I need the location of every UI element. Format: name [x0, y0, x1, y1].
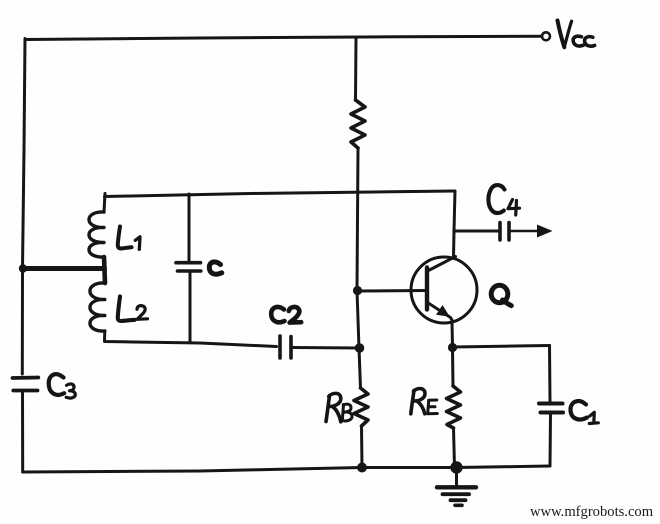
- wire base lead: [358, 289, 428, 293]
- label C2: [271, 307, 301, 323]
- label L1: [118, 227, 140, 250]
- transistor Q circle: [411, 257, 477, 323]
- transistor Q base bar: [425, 268, 429, 310]
- ground stem: [455, 468, 458, 486]
- node C2 / RB junction: [355, 343, 365, 353]
- label RB: [326, 393, 352, 421]
- node emitter junction: [448, 343, 457, 352]
- wire C4 branch: [454, 230, 498, 233]
- wire RB to bottom rail: [360, 426, 364, 468]
- wire collector drop from tank rail: [454, 191, 456, 257]
- wire C4 output with arrow: [511, 230, 541, 233]
- wire C2 to RB node: [293, 346, 360, 350]
- wire L1 to tap: [104, 257, 105, 283]
- capacitor C2: [280, 336, 291, 358]
- wire RE to bottom rail: [454, 428, 455, 468]
- wire base junction down to C2 node: [357, 291, 359, 349]
- node RB bottom junction: [357, 463, 367, 473]
- node Vcc terminal: [542, 32, 550, 40]
- label RE: [411, 389, 438, 414]
- label C3: [49, 374, 76, 398]
- label L2: [118, 297, 148, 322]
- wire left rail: [22, 39, 25, 375]
- node RE bottom / ground junction: [450, 461, 462, 473]
- transistor Q emitter arrowhead: [436, 305, 450, 317]
- output arrowhead: [537, 225, 553, 238]
- resistor RE: [447, 386, 461, 428]
- label c: [209, 262, 222, 274]
- ground bar 4: [455, 503, 462, 507]
- wire middle vertical (Vcc to resistor): [354, 38, 358, 101]
- transistor Q emitter stroke: [428, 303, 453, 322]
- inductor L2: [90, 283, 105, 331]
- capacitor C3: [13, 378, 39, 391]
- label C1: [571, 401, 599, 423]
- transistor Q collector stroke: [428, 257, 456, 272]
- wire C3 bottom lead to bottom rail: [21, 392, 24, 472]
- wire tank top rail: [105, 191, 456, 197]
- label Q: [491, 285, 511, 305]
- node tap on left rail: [19, 264, 27, 272]
- wire C1 top lead: [548, 346, 552, 402]
- wire emitter lead down: [451, 323, 455, 348]
- wire L2 bottom corner: [105, 331, 277, 347]
- wire top rail Vcc: [25, 36, 541, 39]
- watermark www.mfgrobots.com: [530, 504, 653, 521]
- label C4: [488, 185, 519, 215]
- wire bottom rail: [23, 466, 550, 472]
- wire resistor to base junction: [357, 148, 358, 291]
- label Vcc: [558, 21, 595, 48]
- node base junction: [353, 286, 362, 295]
- wire capacitor C top lead: [188, 194, 191, 261]
- ground bar 2: [443, 492, 470, 496]
- wire emitter junction to RE: [451, 348, 455, 387]
- capacitor C: [176, 263, 201, 271]
- resistor R (bias, unlabeled): [351, 100, 365, 148]
- wire tank top-left corner down to L1: [104, 194, 105, 213]
- resistor RB: [354, 388, 368, 426]
- wire C2 node down to RB: [359, 348, 361, 388]
- ground bar 1: [437, 485, 476, 489]
- inductor L1: [89, 212, 104, 257]
- capacitor C4: [500, 223, 509, 241]
- capacitor C1: [539, 404, 563, 413]
- wire capacitor C bottom lead: [189, 273, 192, 343]
- wire emitter node to C1 branch: [453, 346, 550, 348]
- wire center tap: [23, 266, 105, 271]
- ground bar 3: [451, 498, 466, 502]
- wire C1 bottom lead: [549, 415, 553, 467]
